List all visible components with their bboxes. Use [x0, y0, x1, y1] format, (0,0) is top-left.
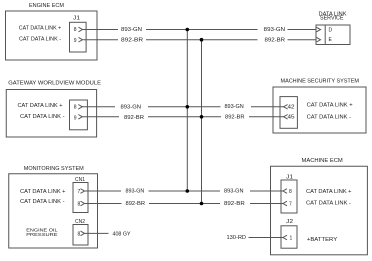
- wire 893-GN engine row segment 3: [288, 29, 317, 31]
- pin 9 arrow (gateway): [78, 115, 82, 120]
- pin D arrow (service): [317, 27, 321, 32]
- pin 7 arrow (machine ECM J1): [283, 201, 287, 206]
- svg-text:GATEWAY WORLDVIEW MODULE: GATEWAY WORLDVIEW MODULE: [8, 81, 102, 87]
- svg-text:893-GN: 893-GN: [264, 27, 286, 33]
- svg-text:J2: J2: [286, 219, 293, 225]
- connector divider DATA LINK SERVICE: [324, 25, 326, 45]
- svg-text:7: 7: [78, 189, 81, 195]
- svg-text:D: D: [329, 28, 333, 34]
- svg-text:PRESSURE: PRESSURE: [26, 232, 57, 237]
- svg-text:9: 9: [74, 115, 77, 121]
- svg-text:CAT DATA LINK -: CAT DATA LINK -: [307, 114, 352, 120]
- svg-text:893-GN: 893-GN: [225, 104, 245, 110]
- wire 893-GN gateway row segment 3: [251, 106, 284, 108]
- wire 893-GN monitoring row segment 1: [85, 190, 122, 192]
- pin 9 arrow (engine J1): [79, 37, 83, 42]
- svg-text:J1: J1: [286, 174, 293, 180]
- svg-text:893-GN: 893-GN: [126, 189, 145, 195]
- svg-text:SERVICE: SERVICE: [320, 16, 344, 22]
- pin 8 arrow (machine ECM J1): [283, 189, 287, 194]
- wire 892-BR gateway row segment 1: [82, 116, 119, 118]
- svg-text:8: 8: [74, 27, 77, 33]
- svg-text:7: 7: [289, 202, 292, 208]
- svg-text:CN1: CN1: [75, 177, 85, 183]
- wire bus 892-BR vertical: [201, 40, 203, 204]
- wire 892-BR engine row segment 3: [288, 39, 317, 41]
- wire 893-GN engine row segment 1: [83, 29, 118, 31]
- connector (machine security): [280, 97, 297, 129]
- svg-text:130-RD: 130-RD: [227, 235, 247, 241]
- box MONITORING SYSTEM: [9, 174, 98, 248]
- svg-text:42: 42: [288, 105, 295, 111]
- svg-text:408 GY: 408 GY: [113, 232, 132, 238]
- svg-text:MACHINE SECURITY SYSTEM: MACHINE SECURITY SYSTEM: [281, 79, 360, 85]
- svg-text:CAT DATA LINK +: CAT DATA LINK +: [306, 189, 352, 195]
- pin 45 arrow (machine security): [284, 115, 288, 120]
- pin 8 arrow (CN2): [81, 231, 85, 236]
- junction 892-BR / gateway row: [200, 115, 204, 119]
- wire 892-BR engine row segment 1: [83, 39, 118, 41]
- pin 42 arrow (machine security): [284, 105, 288, 110]
- connector J1 (machine ECM): [281, 180, 297, 213]
- wire 893-GN monitoring row segment 3: [250, 190, 283, 192]
- svg-text:892-BR: 892-BR: [225, 114, 245, 120]
- svg-text:893-GN: 893-GN: [121, 105, 142, 111]
- pin 1 arrow (machine ECM J2): [283, 235, 287, 240]
- svg-text:8: 8: [74, 105, 77, 111]
- junction 893-GN / engine row: [186, 28, 190, 32]
- wire 893-GN engine row segment 2: [146, 29, 258, 31]
- ECM box U1 ENGINE ECM: [6, 11, 98, 60]
- wire 892-BR monitoring row segment 3: [250, 203, 283, 205]
- svg-text:9: 9: [74, 38, 77, 44]
- wire 892-BR monitoring row segment 2: [149, 203, 220, 205]
- pin 7 arrow (CN1): [81, 189, 85, 194]
- svg-text:8: 8: [289, 189, 292, 195]
- svg-text:893-GN: 893-GN: [121, 27, 142, 33]
- wire 893-GN gateway row segment 1: [82, 106, 115, 108]
- wire 408-GY oil pressure: [85, 232, 109, 234]
- svg-text:CAT DATA LINK -: CAT DATA LINK -: [306, 200, 351, 206]
- box MACHINE ECM: [271, 166, 368, 255]
- box MACHINE SECURITY SYSTEM: [273, 87, 366, 133]
- wire bus 893-GN vertical: [186, 30, 188, 192]
- wire 893-GN monitoring row segment 2: [149, 190, 221, 192]
- svg-text:CN2: CN2: [75, 219, 85, 225]
- junction 892-BR / engine row: [200, 38, 204, 42]
- connector CN2: [73, 225, 88, 246]
- svg-text:892-BR: 892-BR: [126, 201, 146, 207]
- wire 130-RD battery: [249, 237, 284, 239]
- svg-text:892-BR: 892-BR: [121, 37, 144, 43]
- svg-text:CAT DATA LINK +: CAT DATA LINK +: [19, 26, 62, 32]
- svg-text:892-BR: 892-BR: [224, 201, 245, 207]
- junction 893-GN / monitoring row: [186, 189, 190, 193]
- svg-text:CAT DATA LINK +: CAT DATA LINK +: [18, 103, 63, 109]
- connector J2 (machine ECM): [281, 226, 297, 248]
- svg-text:1: 1: [290, 236, 293, 242]
- pin 8 arrow (engine J1): [79, 27, 83, 32]
- pin 8 arrow (CN1): [81, 201, 85, 206]
- svg-text:8: 8: [78, 231, 81, 237]
- svg-text:CAT DATA LINK +: CAT DATA LINK +: [307, 102, 353, 108]
- svg-text:+BATTERY: +BATTERY: [307, 237, 338, 243]
- connector CN1: [73, 183, 88, 213]
- svg-text:MACHINE ECM: MACHINE ECM: [302, 158, 343, 164]
- wire 892-BR gateway row segment 3: [249, 116, 284, 118]
- wire 892-BR gateway row segment 2: [148, 116, 221, 118]
- pin 8 arrow (gateway): [78, 105, 82, 110]
- svg-text:CAT DATA LINK -: CAT DATA LINK -: [20, 199, 65, 205]
- ECM box GATEWAY WORLDVIEW MODULE: [6, 90, 96, 138]
- pin E arrow (service): [317, 37, 321, 42]
- svg-text:J1: J1: [73, 15, 80, 21]
- svg-text:45: 45: [288, 115, 295, 121]
- junction 893-GN / gateway row: [186, 105, 190, 109]
- svg-text:892-BR: 892-BR: [265, 37, 286, 43]
- svg-text:CAT DATA LINK -: CAT DATA LINK -: [19, 37, 61, 43]
- svg-text:CAT DATA LINK -: CAT DATA LINK -: [20, 114, 65, 120]
- connector (gateway): [70, 100, 88, 130]
- connector box DATA LINK SERVICE: [316, 25, 350, 45]
- svg-text:CAT DATA LINK +: CAT DATA LINK +: [20, 189, 66, 195]
- svg-text:893-GN: 893-GN: [224, 189, 244, 195]
- svg-text:ENGINE ECM: ENGINE ECM: [29, 3, 64, 9]
- wire 893-GN gateway row segment 2: [148, 106, 221, 108]
- wire 892-BR monitoring row segment 1: [85, 203, 122, 205]
- svg-text:8: 8: [78, 202, 81, 208]
- junction 892-BR / monitoring row: [200, 202, 204, 206]
- wire 892-BR engine row segment 2: [146, 39, 258, 41]
- svg-text:892-BR: 892-BR: [124, 115, 144, 121]
- svg-text:MONITORING SYSTEM: MONITORING SYSTEM: [24, 166, 84, 172]
- connector J1 (engine ECM): [70, 22, 87, 52]
